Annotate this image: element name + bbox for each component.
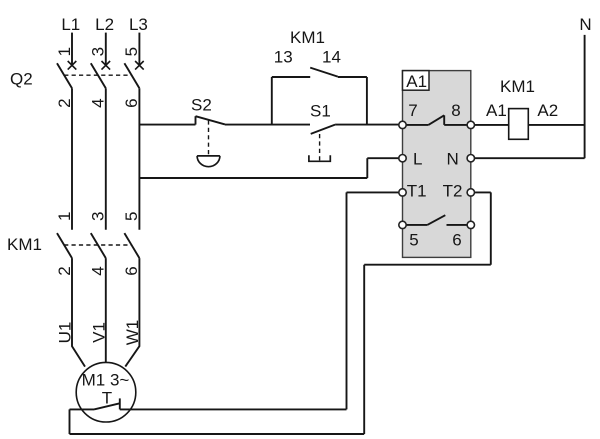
- wire L tap line: [139, 177, 367, 179]
- wire into terminal L: [367, 157, 399, 159]
- contactor coil KM1 body: [509, 109, 529, 140]
- motor M1 circle: [76, 362, 136, 422]
- terminal circle 5: [399, 221, 406, 228]
- svg-text:7: 7: [408, 101, 417, 120]
- wire S2 to S1: [225, 124, 310, 126]
- breaker Q2 pole 3 blade: [124, 63, 139, 88]
- svg-text:L2: L2: [95, 15, 114, 34]
- wire thermal left vertical: [69, 409, 71, 434]
- svg-text:T2: T2: [443, 181, 463, 200]
- svg-text:2: 2: [55, 98, 74, 107]
- wire coil to N column: [528, 124, 584, 126]
- wire T1 vertical drop: [346, 192, 348, 409]
- wire terminal T2 stub: [472, 191, 491, 193]
- wire T2 right vertical: [490, 192, 492, 264]
- terminal circle 7: [399, 121, 406, 128]
- svg-text:KM1: KM1: [290, 28, 325, 47]
- svg-text:3: 3: [89, 212, 108, 221]
- svg-text:6: 6: [122, 266, 141, 275]
- svg-text:W1: W1: [123, 320, 142, 346]
- terminal clamp X pole 3: [135, 61, 144, 70]
- svg-text:N: N: [579, 15, 591, 34]
- pushbutton S2 mushroom head: [197, 156, 220, 167]
- pushbutton S2 blade: [196, 116, 226, 124]
- wire L2 drop: [105, 33, 107, 66]
- wire 13-14 branch left vertical: [271, 77, 273, 125]
- contact 7-8 right stub: [444, 124, 469, 126]
- terminal circle 8: [467, 121, 474, 128]
- wire L1 drop: [71, 33, 73, 66]
- wire phase 2 KM1 to motor: [105, 258, 107, 362]
- svg-text:A2: A2: [537, 101, 558, 120]
- wire T2 long vertical: [363, 265, 365, 434]
- svg-text:A1: A1: [486, 101, 507, 120]
- svg-text:4: 4: [89, 98, 108, 107]
- contactor KM1 pole 1 blade: [57, 233, 72, 258]
- svg-text:13: 13: [274, 48, 293, 67]
- breaker Q2 linkage dashed: [64, 74, 131, 76]
- terminal circle L: [399, 155, 406, 162]
- contact 5-6 left stub: [404, 224, 427, 226]
- svg-text:KM1: KM1: [500, 77, 535, 96]
- wire L riser: [366, 158, 368, 178]
- wire phase 3 Q2 to KM1: [138, 88, 140, 230]
- svg-text:T1: T1: [407, 181, 427, 200]
- relay A1 tag box: [403, 71, 430, 91]
- relay A1 body: [403, 71, 471, 258]
- terminal circle T2: [467, 189, 474, 196]
- wire T2 horizontal under box: [364, 264, 491, 266]
- wire thermal right segment to T1: [120, 408, 347, 410]
- wire phase 1 Q2 to KM1: [71, 88, 73, 230]
- svg-text:A1: A1: [406, 72, 427, 91]
- contact 5-6 right stub: [447, 224, 470, 226]
- contactor KM1 linkage dashed: [64, 244, 131, 246]
- contact 5-6 blade: [427, 215, 445, 225]
- svg-text:5: 5: [409, 231, 418, 250]
- pushbutton S2 actuator dashed: [208, 120, 210, 155]
- wire 13-14 branch top right: [338, 76, 367, 78]
- svg-text:S2: S2: [191, 96, 212, 115]
- svg-text:N: N: [447, 150, 459, 169]
- wire phase 3 KM1 to motor: [125, 258, 139, 367]
- svg-text:1: 1: [55, 47, 74, 56]
- svg-text:14: 14: [322, 48, 341, 67]
- wire phase 1 KM1 to motor: [72, 258, 85, 367]
- svg-text:6: 6: [452, 231, 461, 250]
- wire terminal N to N column: [472, 157, 585, 159]
- svg-text:3: 3: [89, 47, 108, 56]
- contact 7-8 blade: [428, 115, 444, 125]
- breaker Q2 pole 1 blade: [57, 63, 72, 88]
- svg-text:1: 1: [55, 212, 74, 221]
- wire thermal bottom return: [70, 433, 365, 435]
- wire control tap from L3: [139, 124, 195, 126]
- svg-text:KM1: KM1: [7, 235, 42, 254]
- thermal contact fixed tick: [119, 398, 121, 409]
- svg-text:6: 6: [122, 98, 141, 107]
- svg-text:V1: V1: [89, 322, 108, 343]
- pushbutton S1 button bracket: [309, 155, 330, 161]
- breaker Q2 pole 2 blade: [91, 63, 106, 88]
- thermal contact blade: [94, 403, 120, 409]
- svg-text:Q2: Q2: [10, 70, 33, 89]
- svg-text:5: 5: [122, 212, 141, 221]
- svg-text:L3: L3: [129, 15, 148, 34]
- svg-text:L: L: [413, 150, 422, 169]
- wire phase 2 Q2 to KM1: [105, 88, 107, 230]
- terminal circle T1: [399, 189, 406, 196]
- svg-text:5: 5: [122, 47, 141, 56]
- contact KM1 13-14 blade: [310, 68, 338, 77]
- svg-text:2: 2: [55, 266, 74, 275]
- svg-text:M1 3~: M1 3~: [82, 371, 130, 390]
- wire terminal 8 to coil: [472, 124, 509, 126]
- wire 13-14 branch top left: [272, 76, 310, 78]
- wire into terminal T1: [347, 191, 400, 193]
- svg-text:8: 8: [451, 101, 460, 120]
- contact 7-8 left stub: [404, 124, 428, 126]
- wire thermal left segment: [70, 408, 95, 410]
- wire 13-14 branch right vertical: [366, 77, 368, 125]
- contact 7-8 fixed tick: [443, 115, 445, 125]
- terminal clamp X pole 1: [68, 61, 77, 70]
- wire S1 to terminal 7: [335, 124, 399, 126]
- pushbutton S1 actuator dashed: [319, 134, 321, 161]
- terminal clamp X pole 2: [102, 61, 111, 70]
- svg-text:4: 4: [89, 266, 108, 275]
- terminal circle 6: [467, 221, 474, 228]
- pushbutton S2 fixed tick: [195, 116, 197, 124]
- svg-text:U1: U1: [56, 322, 75, 344]
- terminal circle N: [467, 155, 474, 162]
- pushbutton S1 blade: [311, 125, 335, 134]
- svg-text:L1: L1: [61, 15, 80, 34]
- contactor KM1 pole 2 blade: [91, 233, 106, 258]
- wire L3 drop: [138, 33, 140, 66]
- wire N column vertical: [584, 35, 586, 158]
- svg-text:S1: S1: [310, 102, 331, 121]
- contactor KM1 pole 3 blade: [124, 233, 139, 258]
